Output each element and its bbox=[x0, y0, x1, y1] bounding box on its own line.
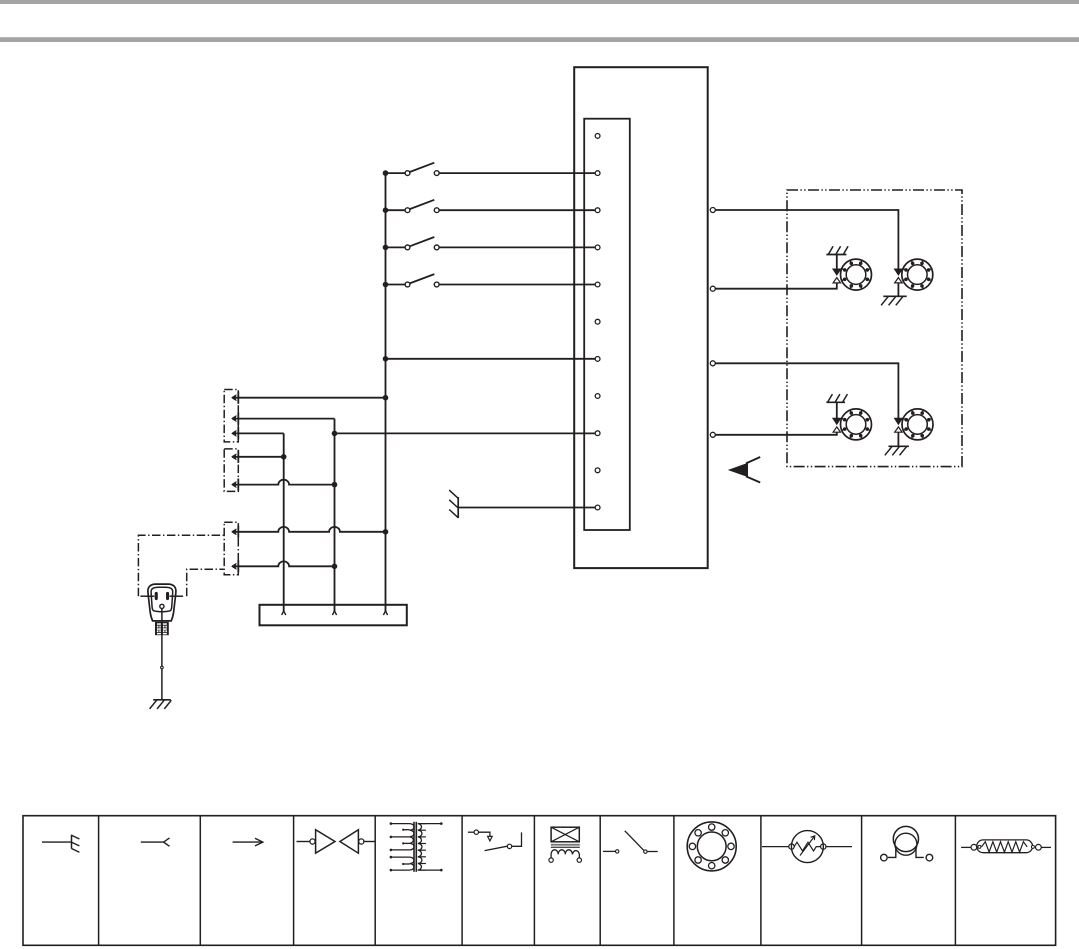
pin 11 (inner-left column) bbox=[595, 505, 600, 510]
brush contacts M3 bbox=[833, 418, 841, 432]
pin 8 (inner-left column) bbox=[595, 394, 600, 399]
legend: male terminal bbox=[233, 838, 263, 846]
brush contacts M2 bbox=[894, 269, 902, 283]
wire pin R3 to motor M4 bbox=[715, 363, 898, 418]
connector row4 arrow bbox=[232, 451, 239, 463]
pin 10 (inner-left column) bbox=[595, 468, 600, 473]
cord splice point bbox=[161, 666, 164, 669]
motor M3 bbox=[841, 409, 872, 440]
legend: variable resistor bbox=[762, 831, 852, 863]
connector row2 arrow bbox=[232, 413, 239, 425]
pin 7 (inner-left column) bbox=[595, 357, 600, 362]
pin R4 (right edge) bbox=[710, 432, 715, 437]
junction connector box J1 bbox=[224, 390, 238, 442]
wire pin R2 to motor M1 bbox=[715, 283, 837, 289]
splice fork B bbox=[332, 611, 336, 615]
wire M4 to ground bbox=[897, 432, 899, 446]
pin 2 (inner-left column) bbox=[595, 171, 600, 176]
plug cord grip bbox=[155, 622, 169, 635]
pin 3 (inner-left column) bbox=[595, 208, 600, 213]
ground bus bar bbox=[260, 605, 407, 626]
legend: open switch bbox=[603, 831, 658, 854]
wire row5 hop over A to bus B bbox=[232, 480, 337, 488]
component boundary dash-dot lower bbox=[187, 569, 224, 596]
pin 9 (inner-left column) bbox=[595, 431, 600, 436]
second gray bar bbox=[0, 37, 1079, 42]
pin 6 (inner-left column) bbox=[595, 319, 600, 324]
junction connector box J2 bbox=[224, 449, 238, 492]
connector row7 arrow bbox=[232, 560, 239, 572]
top gray bar bbox=[0, 0, 1079, 4]
brush contacts M1 bbox=[833, 269, 841, 283]
motor M4 bbox=[902, 409, 933, 440]
legend: motor ring bbox=[687, 822, 736, 871]
ground G2 below plug bbox=[150, 700, 172, 709]
legend: heater element bbox=[961, 840, 1051, 853]
legend: transformer bbox=[390, 822, 443, 872]
bus wire B vertical bbox=[334, 419, 336, 611]
junction connector box J3 bbox=[224, 522, 238, 575]
pin 5 (inner-left column) bbox=[595, 282, 600, 287]
wire pin R4 to motor M3 bbox=[715, 432, 837, 435]
motor M2 bbox=[902, 259, 933, 290]
legend: horn bbox=[881, 826, 933, 860]
bus wire C vertical bbox=[385, 173, 387, 611]
wire row7 hop over A to bus B bbox=[232, 561, 337, 569]
ground G1 with wire to pin 11 bbox=[449, 490, 595, 518]
brush contacts M4 bbox=[894, 418, 902, 432]
switch SW2 with wire to pin 3 bbox=[383, 200, 596, 213]
switch SW3 with wire to pin 4 bbox=[383, 237, 596, 250]
wire pin R1 to motor M2 bbox=[715, 210, 898, 269]
switch SW4 with wire to pin 5 bbox=[383, 274, 596, 287]
wire bus C to pin 7 bbox=[383, 356, 596, 362]
pin R3 (right edge) bbox=[710, 361, 715, 366]
wire ground G5 to brush M3 bbox=[836, 402, 838, 418]
control unit outer box bbox=[574, 67, 708, 568]
plug cord wire bbox=[161, 609, 163, 700]
wire row1 to bus C bbox=[232, 395, 388, 401]
wire M2 to ground bbox=[897, 283, 899, 296]
legend: female terminal bbox=[141, 838, 170, 846]
legend: solenoid bbox=[549, 827, 582, 862]
legend: relay contact bbox=[468, 830, 522, 851]
connector row1 arrow bbox=[232, 392, 239, 404]
pin 1 (inner-left column) bbox=[595, 134, 600, 139]
legend: diode pair bbox=[297, 830, 376, 854]
wire row2 corner to bus B bbox=[232, 418, 334, 420]
pin R1 (right edge) bbox=[710, 208, 715, 213]
wire ground G3 to brush M1 bbox=[836, 255, 838, 269]
ground G5 bbox=[826, 394, 847, 402]
view direction arrow bbox=[728, 457, 760, 483]
connector row6 arrow bbox=[232, 526, 239, 538]
actuator boundary dash-dot box bbox=[787, 190, 962, 467]
connector inner box bbox=[584, 119, 630, 530]
legend: ground symbol bbox=[42, 835, 79, 853]
legend table grid bbox=[23, 816, 1056, 946]
connector row3 arrow bbox=[232, 427, 239, 439]
ground G6 bbox=[885, 446, 909, 455]
power plug P1 bbox=[140, 584, 183, 621]
wire row4 to bus A bbox=[232, 454, 286, 460]
splice fork C bbox=[383, 611, 387, 615]
bus wire A vertical bbox=[283, 433, 285, 611]
splice fork A bbox=[282, 611, 286, 615]
pin 4 (inner-left column) bbox=[595, 245, 600, 250]
wire row6 hop over A,B to bus C bbox=[232, 527, 388, 535]
ground G3 bbox=[826, 246, 848, 254]
connector row5 arrow bbox=[232, 479, 239, 491]
component boundary dash-dot upper bbox=[138, 535, 223, 596]
wire bus B to pin 9 bbox=[332, 431, 596, 437]
switch SW1 with wire to pin 2 bbox=[383, 163, 596, 176]
wire row3 corner to bus A bbox=[232, 432, 284, 434]
ground G4 bbox=[881, 296, 907, 305]
motor M1 bbox=[841, 259, 872, 290]
pin R2 (right edge) bbox=[710, 286, 715, 291]
